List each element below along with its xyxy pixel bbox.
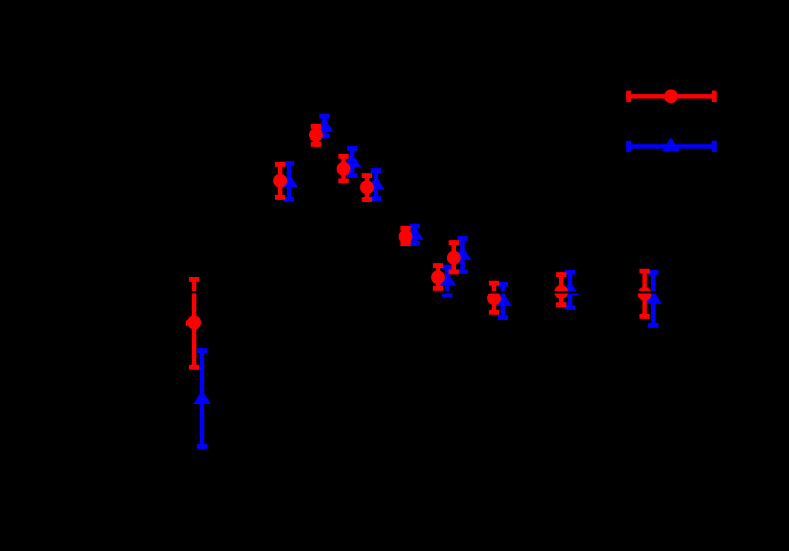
blue data point D: triangle marker <box>343 153 361 167</box>
red data point C: error bar with caps <box>311 124 321 147</box>
red data point F: circle marker <box>399 230 413 244</box>
red data point E: error bar with caps <box>362 173 372 202</box>
red data point G: error bar with caps <box>449 240 459 274</box>
blue data point A: triangle marker <box>193 390 211 404</box>
black reference line (unity line) drawn over markers at y~292 <box>95 291 745 294</box>
blue data point F: error bar with caps <box>410 224 420 246</box>
blue data point J: triangle marker <box>561 281 579 295</box>
red data point G: circle marker <box>447 251 461 265</box>
blue data point G: triangle marker <box>454 246 472 260</box>
blue data point D: error bar with caps <box>347 146 357 178</box>
red data point D: circle marker <box>337 162 351 176</box>
blue data point B: error bar with caps <box>284 161 294 202</box>
red data point E: circle marker <box>360 180 374 194</box>
blue data point G: error bar with caps <box>457 236 467 274</box>
blue data point K: error bar with caps <box>648 270 658 328</box>
red data point J: error bar with caps <box>556 272 566 307</box>
blue data point F: triangle marker <box>406 226 424 240</box>
blue data point H: error bar with caps <box>442 265 452 297</box>
red data point H: error bar with caps <box>433 263 443 291</box>
blue data point I: error bar with caps <box>498 282 508 320</box>
legend blue sample: horizontal errorbar line with end ticks and triangle <box>626 138 717 153</box>
blue data point K: triangle marker <box>644 290 662 304</box>
legend red sample: horizontal errorbar line with end ticks and circle <box>626 89 717 103</box>
blue data point E: error bar with caps <box>371 168 381 201</box>
red data point J: circle marker <box>554 285 568 299</box>
red data point F: error bar with caps <box>400 226 410 246</box>
blue data point H: triangle marker <box>438 272 456 286</box>
red data point B: circle marker <box>273 174 287 188</box>
red data point B: error bar with caps <box>275 162 285 200</box>
red x-error whisker sliver left of point A <box>186 320 188 326</box>
blue data point E: triangle marker <box>367 176 385 190</box>
blue data point I: triangle marker <box>494 292 512 306</box>
blue data point B: triangle marker <box>280 173 298 187</box>
blue data point J: error bar with caps <box>565 270 575 310</box>
blue data point C: triangle marker <box>316 118 334 132</box>
red data point K: error bar with caps <box>639 269 649 319</box>
red data point I: error bar with caps <box>489 281 499 315</box>
red data point A: error bar with caps <box>189 277 199 370</box>
blue data point A: error bar with caps <box>197 348 207 449</box>
blue data point C: error bar with caps <box>319 114 329 139</box>
red data point A: circle marker <box>187 316 201 330</box>
red data point I: circle marker <box>487 291 501 305</box>
red data point D: error bar with caps <box>338 154 348 183</box>
red data point H: circle marker <box>431 270 445 284</box>
red data point C: circle marker <box>309 128 323 142</box>
red data point K: circle marker <box>638 287 652 301</box>
